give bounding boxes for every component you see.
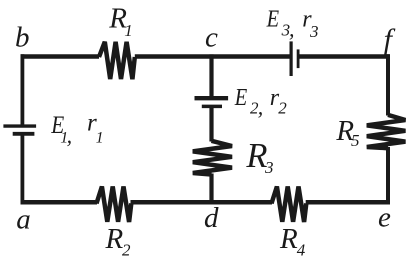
svg-text:b: b	[15, 22, 30, 54]
svg-text:e: e	[378, 202, 391, 234]
svg-text:d: d	[204, 202, 219, 234]
svg-text:c: c	[205, 22, 218, 54]
svg-text:,: ,	[67, 123, 73, 148]
svg-text:1: 1	[96, 129, 104, 146]
svg-text:E: E	[234, 83, 248, 110]
svg-text:2: 2	[278, 99, 287, 118]
svg-text:3: 3	[264, 158, 274, 177]
svg-text:4: 4	[297, 241, 306, 260]
svg-text:1: 1	[124, 21, 133, 40]
svg-text:3: 3	[309, 22, 319, 41]
svg-text:,: ,	[289, 17, 295, 42]
svg-text:2: 2	[122, 241, 131, 260]
svg-text:E: E	[266, 5, 280, 32]
svg-text:,: ,	[258, 95, 264, 120]
svg-text:R: R	[105, 223, 124, 255]
svg-text:5: 5	[351, 131, 360, 150]
svg-text:R: R	[279, 223, 298, 255]
svg-text:a: a	[16, 203, 31, 235]
